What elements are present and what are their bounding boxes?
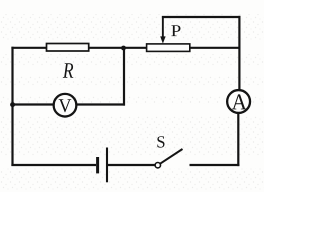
- label P: [171, 25, 180, 36]
- wire: voltmeter branch horizontal: [11, 103, 125, 105]
- ammeter A: [227, 90, 250, 113]
- voltmeter V: [54, 94, 77, 117]
- node: junction dot on left rail: [10, 102, 15, 107]
- wire: left vertical rail: [11, 47, 13, 166]
- potentiometer P (rheostat body): [147, 44, 190, 52]
- label A: [232, 94, 247, 109]
- label R: [63, 63, 73, 78]
- node: junction dot between R and P: [121, 46, 126, 51]
- resistor R: [47, 44, 89, 52]
- battery: [98, 148, 107, 183]
- label S: [157, 136, 164, 147]
- wire: right vertical rail down to ammeter: [238, 16, 240, 90]
- label V: [59, 99, 72, 112]
- wire: bottom left to battery: [11, 164, 96, 166]
- switch S: [155, 149, 182, 168]
- wire: top-left horizontal (R branch): [11, 47, 146, 49]
- wire: switch to bottom-right corner: [190, 164, 240, 166]
- wire: rheostat right terminal to right rail: [190, 47, 240, 49]
- wire: voltmeter branch vertical up to node: [123, 48, 125, 106]
- wire: right vertical below ammeter: [237, 113, 239, 166]
- wiper arrow of P: [160, 16, 165, 44]
- wire: top horizontal from wiper to right rail: [162, 16, 241, 18]
- wire: battery to switch: [108, 164, 155, 166]
